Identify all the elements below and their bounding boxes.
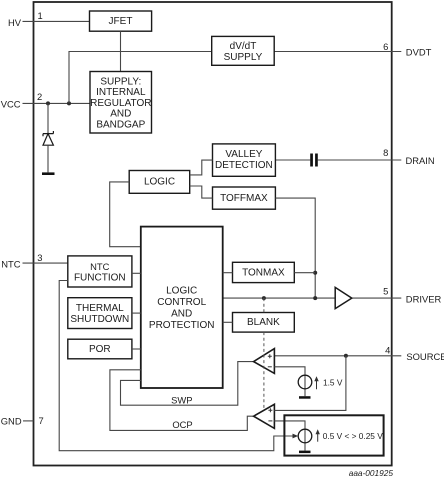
svg-text:SOURCE: SOURCE	[406, 351, 444, 362]
node VCC junction A	[46, 101, 50, 105]
svg-text:AND: AND	[171, 309, 192, 320]
svg-text:HV: HV	[8, 17, 22, 28]
svg-text:FUNCTION: FUNCTION	[74, 272, 126, 283]
svg-text:BLANK: BLANK	[247, 317, 280, 328]
wire DRIVER net	[223, 297, 335, 299]
wire HV pin stub	[23, 20, 90, 22]
block TONMAX	[233, 262, 295, 282]
wire NTC pin stub	[23, 262, 68, 264]
svg-text:REGULATOR: REGULATOR	[90, 98, 151, 109]
wire logic-control to BLANK	[223, 321, 233, 323]
svg-text:SUPPLY:: SUPPLY:	[100, 76, 141, 87]
block THERMAL SHUTDOWN	[68, 298, 132, 329]
wire POR to logic-control	[132, 348, 141, 350]
arrow V1	[316, 380, 318, 390]
wire comparator2 minus to 0.5V source	[274, 421, 305, 429]
comparator U2 minus input mark	[268, 420, 272, 422]
wire OCP path comparator2 to logic-control	[110, 370, 254, 431]
wire LOGIC to TOFFMAX	[190, 186, 213, 198]
svg-text:SWP: SWP	[171, 394, 192, 405]
svg-text:LOGIC: LOGIC	[166, 286, 197, 297]
wire SOURCE net	[274, 355, 401, 357]
svg-text:BANDGAP: BANDGAP	[96, 120, 145, 131]
wire DRAIN net from valley detection	[275, 159, 310, 161]
wire NTC FUNCTION to logic-control	[132, 272, 141, 274]
svg-text:7: 7	[39, 415, 44, 426]
voltage source V1 1.5V	[304, 375, 306, 396]
svg-text:GND: GND	[1, 415, 22, 426]
block BLANK	[233, 313, 295, 333]
arrow V2	[317, 433, 319, 442]
ground bar under zener	[42, 172, 55, 175]
arrow into 0.5V source	[293, 434, 299, 439]
wire SWP path comparator1 to logic-control	[121, 362, 254, 406]
svg-text:8: 8	[383, 147, 388, 158]
block SUPPLY: INTERNAL REGULATOR AND BANDGAP	[90, 72, 152, 134]
svg-text:aaa-001925: aaa-001925	[349, 468, 394, 478]
wire JFET to supply	[120, 31, 122, 71]
svg-text:6: 6	[383, 41, 388, 52]
svg-text:NTC: NTC	[1, 258, 20, 269]
driver buffer triangle	[335, 287, 352, 308]
capacitor on drain sense	[310, 154, 313, 167]
node blank dashed junction on driver line	[262, 296, 266, 300]
svg-text:VALLEY: VALLEY	[225, 149, 262, 160]
wire TONMAX to driver vertical	[294, 272, 315, 274]
block JFET	[90, 11, 152, 31]
comparator U1 (SWP)	[254, 349, 275, 374]
wire logic-control to TONMAX	[223, 272, 233, 274]
svg-text:dV/dT: dV/dT	[230, 41, 257, 52]
svg-text:VCC: VCC	[1, 99, 21, 110]
svg-text:JFET: JFET	[109, 16, 133, 27]
svg-text:THERMAL: THERMAL	[76, 303, 124, 314]
wire TOFFMAX feedback to driver line	[275, 198, 315, 298]
svg-text:POR: POR	[89, 344, 111, 355]
ground bar under V2	[299, 451, 311, 454]
comparator U2 plus input mark	[268, 408, 272, 412]
svg-text:TONMAX: TONMAX	[242, 267, 285, 278]
node VCC junction B	[67, 101, 71, 105]
block NTC FUNCTION	[68, 256, 132, 287]
svg-text:SHUTDOWN: SHUTDOWN	[70, 314, 129, 325]
IC outline box	[34, 2, 392, 466]
svg-text:3: 3	[37, 252, 42, 263]
node TONMAX junction	[313, 271, 317, 275]
node SOURCE junction	[344, 354, 348, 358]
block LOGIC CONTROL AND PROTECTION	[141, 227, 223, 388]
block POR	[68, 339, 132, 359]
svg-text:CONTROL: CONTROL	[157, 297, 206, 308]
comparator U1 plus input mark	[268, 354, 272, 358]
zener diode at VCC	[47, 103, 49, 133]
svg-text:INTERNAL: INTERNAL	[96, 87, 146, 98]
comparator U2 (OCP)	[254, 404, 275, 428]
svg-text:DRAIN: DRAIN	[406, 155, 435, 166]
svg-text:OCP: OCP	[172, 419, 192, 430]
wire BLANK dashed line upper	[263, 298, 265, 312]
svg-text:DETECTION: DETECTION	[215, 160, 273, 171]
wire comparator2 plus to SOURCE	[274, 356, 346, 411]
svg-text:PROTECTION: PROTECTION	[149, 320, 215, 331]
svg-text:DVDT: DVDT	[406, 47, 432, 58]
comparator U1 minus input mark	[268, 366, 272, 368]
block LOGIC	[129, 171, 190, 194]
voltage source V2 0.5V/0.25V	[304, 429, 306, 450]
wire GND pin stub	[23, 420, 34, 422]
svg-text:NTC: NTC	[90, 261, 109, 272]
svg-text:SUPPLY: SUPPLY	[224, 52, 263, 63]
svg-text:1.5 V: 1.5 V	[323, 378, 343, 388]
ground bar under V1	[299, 396, 311, 399]
block dV/dT SUPPLY	[212, 36, 275, 65]
block VALLEY DETECTION	[213, 144, 276, 176]
block TOFFMAX	[213, 187, 276, 209]
wire THERMAL SHUTDOWN to logic-control	[132, 312, 141, 314]
wire comparator1 minus to 1.5V source	[274, 367, 305, 375]
svg-text:0.5 V < > 0.25 V: 0.5 V < > 0.25 V	[323, 431, 383, 441]
svg-text:LOGIC: LOGIC	[144, 177, 175, 188]
wire VCC line	[23, 102, 91, 104]
wire NTC feedback to OCP reference	[59, 281, 294, 451]
svg-text:TOFFMAX: TOFFMAX	[220, 193, 268, 204]
svg-text:4: 4	[385, 344, 390, 355]
wire LOGIC to VALLEY DETECTION	[190, 160, 213, 175]
wire BLANK dashed line lower	[263, 332, 265, 409]
node driver line junction	[313, 296, 317, 300]
svg-text:DRIVER: DRIVER	[406, 293, 442, 304]
wire DVDT net	[69, 52, 401, 104]
svg-text:2: 2	[37, 91, 42, 102]
svg-text:5: 5	[383, 286, 388, 297]
svg-text:AND: AND	[110, 109, 131, 120]
wire LOGIC to logic-control box	[110, 182, 141, 247]
block OCP reference (bold box)	[284, 415, 383, 455]
svg-text:1: 1	[38, 10, 43, 21]
